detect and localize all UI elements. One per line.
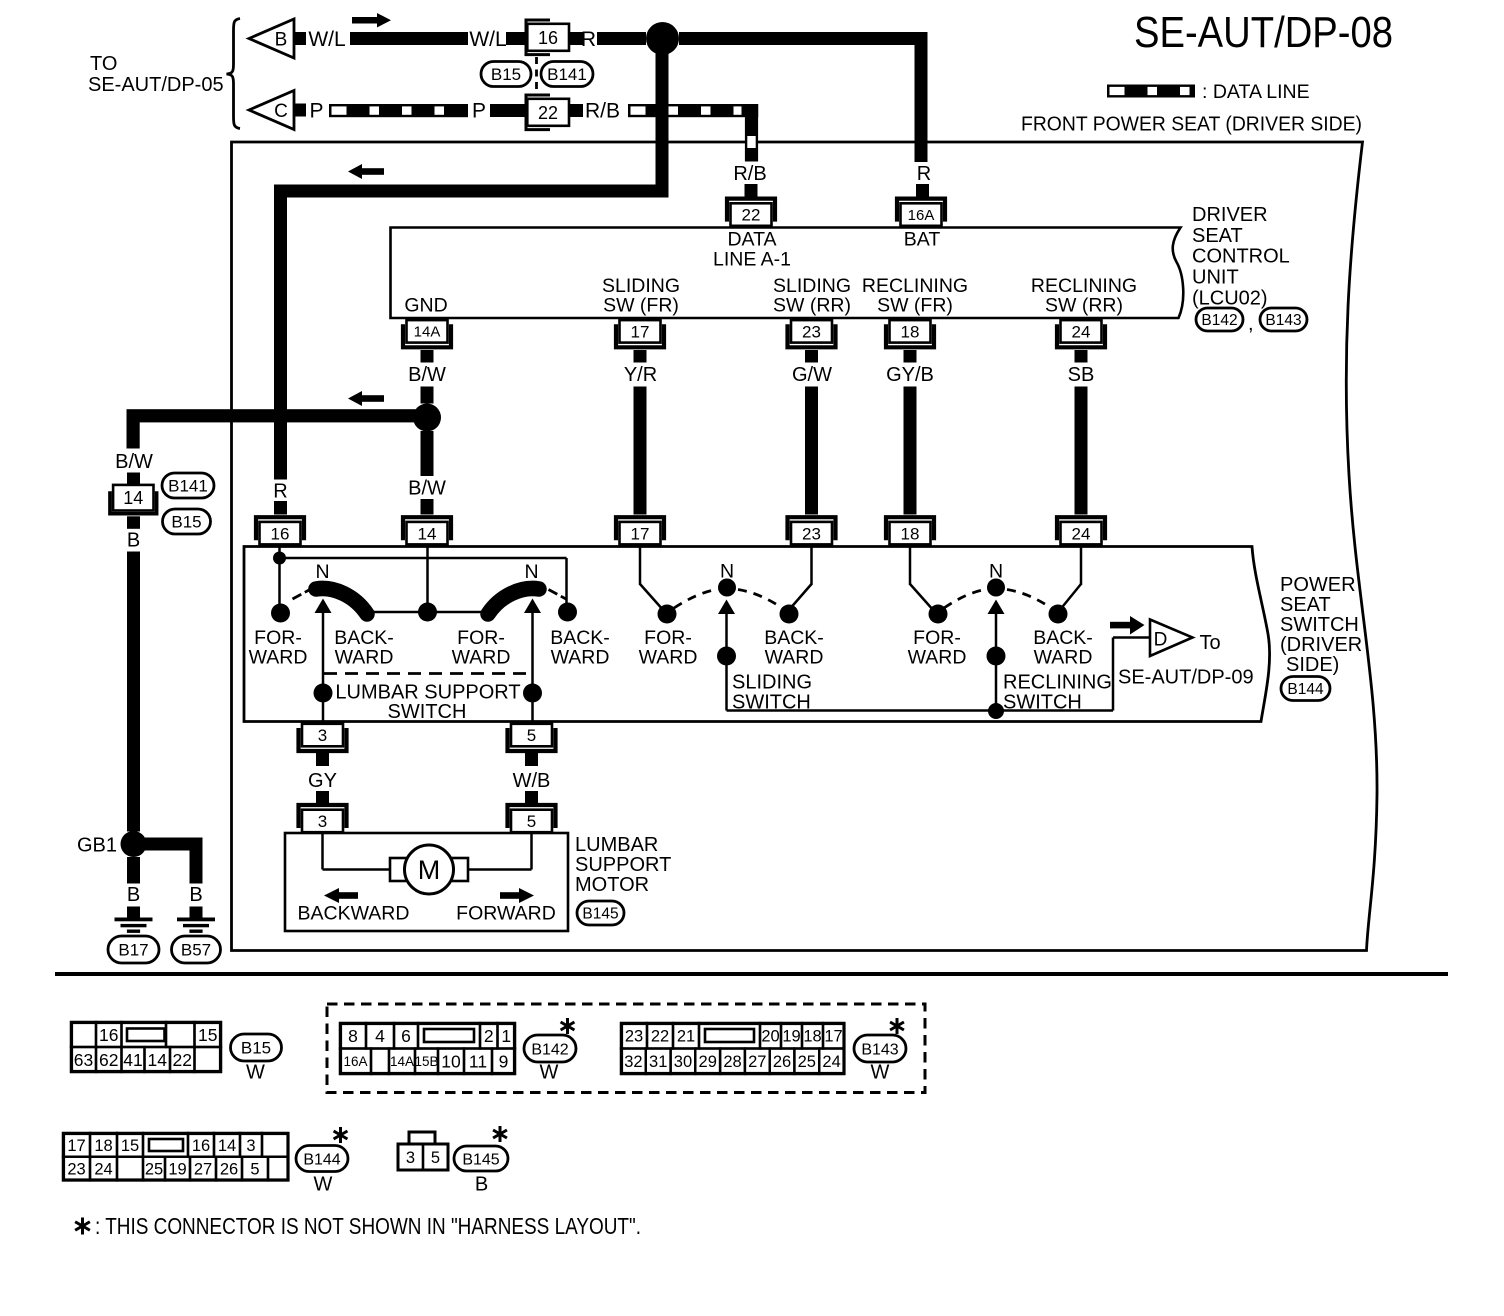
- flow arrow right: [1110, 622, 1130, 629]
- svg-text:30: 30: [674, 1053, 692, 1071]
- svg-text:C: C: [274, 101, 288, 122]
- svg-text:SIDE): SIDE): [1286, 654, 1339, 676]
- svg-text:B: B: [189, 884, 202, 906]
- wire W/L: [350, 32, 468, 45]
- svg-text:23: 23: [625, 1028, 643, 1046]
- wire branch right: [134, 838, 203, 851]
- wire down: [995, 656, 998, 711]
- svg-text:3: 3: [246, 1137, 255, 1155]
- wire B down to GB1: [127, 552, 140, 832]
- svg-text:6: 6: [401, 1026, 411, 1046]
- wire Y/R: [634, 350, 647, 363]
- actuator dot: [987, 647, 1006, 666]
- svg-text:GY: GY: [308, 770, 337, 792]
- svg-text:B15: B15: [241, 1039, 271, 1058]
- svg-text:25: 25: [145, 1160, 163, 1178]
- contact dot forward (left): [271, 604, 290, 623]
- connector 3: [299, 724, 347, 751]
- connector pinout B144: [63, 1133, 288, 1180]
- wire from 23: [810, 546, 813, 585]
- svg-text:M: M: [418, 855, 441, 885]
- junction node: [646, 22, 679, 55]
- svg-text:2: 2: [484, 1026, 494, 1046]
- svg-text:14: 14: [148, 1050, 168, 1070]
- node: [273, 552, 286, 565]
- connector pinout B143: [621, 1023, 844, 1074]
- junction: [988, 703, 1004, 719]
- svg-text:SW (FR): SW (FR): [877, 295, 953, 317]
- connector dashed divider B15/B141: [535, 57, 538, 91]
- actuator arrow: [725, 614, 728, 652]
- connector 14: [403, 517, 451, 544]
- svg-text:B57: B57: [181, 941, 211, 960]
- svg-text:62: 62: [99, 1050, 118, 1070]
- contact dot backward: [1049, 605, 1068, 624]
- svg-text:BACKWARD: BACKWARD: [298, 903, 410, 925]
- connector ref B143: [1260, 308, 1307, 331]
- actuator dot: [717, 647, 736, 666]
- svg-text:R: R: [273, 481, 287, 503]
- enclosure FRONT POWER SEAT box: [232, 142, 1378, 951]
- connector ref B141: [541, 62, 593, 87]
- svg-text:DATA: DATA: [727, 229, 776, 251]
- connector 22 (B15/B141 inline): [526, 95, 569, 130]
- connector ref B143: [854, 1035, 906, 1062]
- center contact line: [368, 611, 486, 614]
- svg-text:14A: 14A: [414, 324, 441, 341]
- wire: [569, 32, 583, 45]
- motor terminal right: [451, 858, 468, 881]
- connector 16A: [897, 199, 945, 226]
- wiper dashed right: [1007, 590, 1051, 609]
- svg-text:15B: 15B: [414, 1054, 438, 1069]
- svg-text:63: 63: [74, 1050, 93, 1070]
- data line P: [329, 104, 468, 117]
- motor M: [405, 845, 454, 894]
- off-page connector D: [1150, 620, 1193, 657]
- svg-text:16: 16: [271, 524, 290, 543]
- svg-text:14: 14: [123, 488, 143, 508]
- svg-text:Y/R: Y/R: [624, 364, 657, 386]
- svg-text:SE-AUT/DP-05: SE-AUT/DP-05: [88, 74, 224, 96]
- connector 17: [616, 320, 664, 347]
- svg-text:GND: GND: [404, 295, 447, 317]
- footnote: [81, 1218, 84, 1235]
- svg-text:To: To: [1199, 632, 1220, 654]
- svg-text:17: 17: [631, 322, 650, 341]
- common wire to D: [727, 709, 1114, 712]
- svg-text:(LCU02): (LCU02): [1192, 287, 1268, 309]
- svg-text:W: W: [246, 1062, 265, 1084]
- wire R to 16A: [679, 32, 928, 45]
- common node N: [987, 579, 1005, 597]
- svg-text:WARD: WARD: [551, 647, 610, 669]
- mechanical link dashed: [324, 672, 531, 675]
- svg-text:18: 18: [803, 1028, 821, 1046]
- svg-text:SE-AUT/DP-09: SE-AUT/DP-09: [1118, 667, 1254, 689]
- svg-text:15: 15: [198, 1025, 217, 1045]
- svg-text:TO: TO: [90, 53, 117, 75]
- svg-text:B141: B141: [168, 477, 208, 496]
- svg-text:B142: B142: [1201, 312, 1237, 329]
- wiper arc right: [488, 588, 539, 614]
- svg-text:: THIS CONNECTOR IS NOT SHOWN: : THIS CONNECTOR IS NOT SHOWN IN "HARNES…: [95, 1213, 641, 1239]
- off-page connector C: [249, 91, 294, 130]
- connector ref B57: [172, 936, 221, 963]
- svg-text:G/W: G/W: [792, 364, 832, 386]
- contact dot backward: [780, 605, 799, 624]
- connector ref B145: [454, 1146, 508, 1171]
- svg-text:23: 23: [802, 322, 821, 341]
- svg-text:DRIVER: DRIVER: [1192, 204, 1268, 226]
- connector pinout B15: [71, 1022, 221, 1072]
- svg-text:W/B: W/B: [513, 770, 551, 792]
- svg-text:B/W: B/W: [408, 364, 446, 386]
- svg-text:SEAT: SEAT: [1280, 594, 1331, 616]
- wiper arc left: [316, 588, 367, 614]
- wire B/W down left: [127, 422, 140, 449]
- svg-text:B: B: [127, 884, 140, 906]
- connector 23: [788, 517, 836, 544]
- svg-text:14A: 14A: [390, 1054, 414, 1069]
- wire B/W to connector 14: [421, 431, 434, 476]
- svg-text:17: 17: [67, 1137, 85, 1155]
- wire: [490, 104, 525, 117]
- wire from 18: [909, 546, 912, 585]
- svg-text:20: 20: [761, 1028, 779, 1046]
- svg-text:FRONT POWER SEAT (DRIVER SIDE): FRONT POWER SEAT (DRIVER SIDE): [1021, 114, 1362, 136]
- wiper dash right: [549, 590, 567, 600]
- svg-text:W: W: [871, 1062, 890, 1084]
- svg-text:22: 22: [538, 103, 558, 123]
- wire to motor: [321, 833, 324, 870]
- ground B17: [115, 918, 153, 922]
- svg-text:UNIT: UNIT: [1192, 266, 1239, 288]
- svg-text:29: 29: [699, 1053, 717, 1071]
- connector 5: [508, 724, 556, 751]
- dashed group box: [327, 1004, 925, 1093]
- svg-text:16: 16: [99, 1025, 118, 1045]
- wire G/W: [805, 350, 818, 363]
- svg-text:22: 22: [742, 206, 761, 225]
- svg-text:LINE A-1: LINE A-1: [713, 249, 791, 271]
- svg-text:16: 16: [192, 1137, 210, 1155]
- arrow forward: [500, 892, 519, 899]
- actuator arrow: [995, 614, 998, 652]
- svg-text:31: 31: [649, 1053, 667, 1071]
- svg-text:16A: 16A: [908, 207, 935, 224]
- separator line: [55, 972, 1448, 976]
- svg-text:23: 23: [802, 524, 821, 543]
- svg-text:5: 5: [527, 812, 536, 831]
- contact dot forward: [658, 605, 677, 624]
- svg-text:W: W: [540, 1062, 559, 1084]
- svg-text:B143: B143: [861, 1041, 898, 1058]
- svg-text:SWITCH: SWITCH: [388, 701, 467, 723]
- svg-text:WARD: WARD: [908, 647, 967, 669]
- wiper dashed left: [674, 590, 716, 609]
- connector ref B144: [1281, 677, 1330, 701]
- actuator arrow right: [531, 613, 534, 690]
- svg-text:W/L: W/L: [308, 28, 345, 51]
- svg-text:3: 3: [318, 812, 327, 831]
- wire R: [597, 32, 646, 45]
- svg-text:W/L: W/L: [469, 28, 506, 51]
- contact dot forward: [929, 605, 948, 624]
- svg-text:B/W: B/W: [408, 478, 446, 500]
- connector 22: [727, 199, 775, 226]
- svg-text:22: 22: [173, 1050, 192, 1070]
- svg-text:B15: B15: [491, 65, 521, 84]
- brace: [227, 19, 241, 129]
- connector ref B15: [163, 509, 211, 534]
- svg-text:B143: B143: [1265, 312, 1301, 329]
- svg-text:18: 18: [901, 322, 920, 341]
- wire down: [725, 656, 728, 711]
- svg-text:FORWARD: FORWARD: [456, 903, 556, 925]
- wire B/W (GND): [421, 350, 434, 363]
- svg-text:16: 16: [538, 28, 558, 48]
- wire from 16: [278, 546, 281, 554]
- svg-text:18: 18: [94, 1137, 112, 1155]
- svg-text:LUMBAR: LUMBAR: [575, 834, 658, 856]
- wire from 24: [1080, 546, 1083, 585]
- center node: [418, 603, 437, 622]
- connector 16: [256, 517, 304, 544]
- svg-text:8: 8: [348, 1026, 358, 1046]
- connector ref B15: [481, 62, 531, 87]
- motor terminal left: [390, 858, 407, 881]
- svg-text:22: 22: [651, 1028, 669, 1046]
- wire stub: [294, 32, 306, 45]
- actuator arrow left: [322, 613, 325, 690]
- svg-text:5: 5: [250, 1160, 259, 1178]
- wiper dashed left: [944, 590, 985, 609]
- svg-text:B: B: [275, 30, 288, 51]
- wire across to backward contact: [280, 557, 567, 560]
- svg-text:SLIDING: SLIDING: [732, 672, 812, 694]
- svg-text:SW (RR): SW (RR): [1045, 295, 1123, 317]
- svg-text:41: 41: [123, 1050, 142, 1070]
- svg-text:32: 32: [624, 1053, 642, 1071]
- svg-text:D: D: [1154, 630, 1168, 651]
- svg-text:GY/B: GY/B: [886, 364, 934, 386]
- arrow backward: [324, 888, 339, 903]
- svg-text:POWER: POWER: [1280, 574, 1356, 596]
- wire: [569, 104, 583, 117]
- svg-text:P: P: [309, 100, 323, 123]
- flow arrow right: [352, 17, 377, 24]
- data line R/B vertical: [745, 104, 758, 162]
- svg-text:B142: B142: [531, 1041, 568, 1058]
- svg-text:B141: B141: [547, 65, 587, 84]
- wire R down to connector 16: [274, 198, 287, 480]
- wire stub: [294, 104, 306, 117]
- svg-text:19: 19: [782, 1028, 800, 1046]
- connector 24: [1057, 320, 1105, 347]
- svg-text:RECLINING: RECLINING: [1003, 672, 1112, 694]
- svg-text:GB1: GB1: [77, 835, 117, 857]
- svg-text:B/W: B/W: [115, 451, 153, 473]
- connector 24: [1057, 517, 1105, 544]
- svg-text:B17: B17: [118, 941, 148, 960]
- wire B/W branch left: [127, 409, 428, 422]
- svg-text:24: 24: [1072, 322, 1091, 341]
- svg-text:5: 5: [431, 1149, 440, 1167]
- svg-text:BAT: BAT: [904, 229, 941, 251]
- wire: [745, 184, 758, 197]
- svg-text:15: 15: [121, 1137, 139, 1155]
- wire B left: [127, 857, 140, 884]
- svg-text:B145: B145: [582, 906, 618, 923]
- junction node B/W: [413, 404, 441, 432]
- svg-text:3: 3: [318, 726, 327, 745]
- svg-text:24: 24: [822, 1053, 840, 1071]
- svg-text:14: 14: [218, 1137, 236, 1155]
- svg-text:5: 5: [527, 726, 536, 745]
- wire label B: [127, 516, 140, 529]
- svg-text:SW (FR): SW (FR): [603, 295, 679, 317]
- connector 14A: [403, 320, 451, 347]
- wire GY/B: [904, 350, 917, 363]
- svg-text:19: 19: [168, 1160, 186, 1178]
- svg-text:B: B: [127, 530, 140, 552]
- svg-text:23: 23: [67, 1160, 85, 1178]
- connector ref B144: [296, 1146, 348, 1172]
- svg-text:R: R: [917, 163, 931, 185]
- POWER SEAT SWITCH box: [244, 547, 1270, 722]
- svg-text:B144: B144: [1287, 681, 1324, 698]
- flow arrow left: [348, 391, 362, 406]
- LUMBAR SUPPORT MOTOR box: [285, 833, 568, 931]
- svg-text:WARD: WARD: [452, 647, 511, 669]
- connector ref B142: [1196, 308, 1243, 331]
- svg-text:(DRIVER: (DRIVER: [1280, 634, 1362, 656]
- svg-text:25: 25: [798, 1053, 816, 1071]
- svg-text:21: 21: [677, 1028, 695, 1046]
- connector 18: [886, 517, 934, 544]
- svg-text:MOTOR: MOTOR: [575, 874, 649, 896]
- data line legend: [1107, 85, 1195, 98]
- connector 14 (B141/B15 inline): [110, 485, 157, 514]
- svg-text:B144: B144: [303, 1151, 340, 1168]
- common node N: [718, 579, 736, 597]
- svg-text:SEAT: SEAT: [1192, 225, 1243, 247]
- connector pinout B145: [398, 1132, 448, 1170]
- connector 16 (B15/B141 inline): [526, 20, 569, 55]
- connector 18: [886, 320, 934, 347]
- wire W/B: [525, 752, 538, 766]
- svg-text:3: 3: [406, 1149, 415, 1167]
- svg-text:P: P: [472, 100, 486, 123]
- wire to forward contact: [278, 558, 281, 604]
- svg-text:W: W: [314, 1174, 333, 1196]
- wire R down-left run: [656, 50, 669, 198]
- svg-text:17: 17: [631, 524, 650, 543]
- svg-text:: DATA LINE: : DATA LINE: [1202, 81, 1310, 103]
- svg-text:18: 18: [901, 524, 920, 543]
- svg-text:WARD: WARD: [765, 647, 824, 669]
- connector 3 (motor): [299, 805, 347, 832]
- svg-text:26: 26: [773, 1053, 791, 1071]
- wire: [916, 184, 929, 197]
- connector ref B142: [524, 1035, 576, 1062]
- svg-text:SWITCH: SWITCH: [1280, 614, 1359, 636]
- wiper dash left: [293, 590, 311, 600]
- svg-text:WARD: WARD: [1034, 647, 1093, 669]
- svg-text:16A: 16A: [343, 1054, 367, 1069]
- connector pinout B142: [340, 1023, 515, 1074]
- svg-text:24: 24: [94, 1160, 112, 1178]
- svg-text:SW (RR): SW (RR): [773, 295, 851, 317]
- svg-text:B: B: [475, 1174, 488, 1196]
- svg-text:N: N: [315, 561, 329, 583]
- actuator dot: [523, 684, 542, 703]
- svg-text:R: R: [581, 28, 596, 51]
- svg-text:26: 26: [220, 1160, 238, 1178]
- connector 17: [616, 517, 664, 544]
- connector ref B145: [577, 901, 624, 925]
- actuator dot: [314, 684, 333, 703]
- svg-text:N: N: [524, 561, 538, 583]
- svg-text:17: 17: [824, 1028, 842, 1046]
- connector ref B15: [231, 1034, 282, 1061]
- svg-text:SB: SB: [1068, 364, 1095, 386]
- ground B57: [177, 918, 215, 922]
- svg-text:24: 24: [1072, 524, 1091, 543]
- svg-text:R/B: R/B: [733, 163, 766, 185]
- svg-text:,: ,: [1248, 313, 1254, 335]
- off-page connector B: [249, 19, 294, 58]
- wire to connector 5: [531, 693, 534, 722]
- wire from 17: [639, 546, 642, 585]
- svg-text:9: 9: [499, 1052, 509, 1072]
- connector 5 (motor): [508, 805, 556, 832]
- svg-text:28: 28: [723, 1053, 741, 1071]
- flow arrow left: [348, 164, 362, 179]
- svg-text:4: 4: [375, 1026, 385, 1046]
- svg-text:CONTROL: CONTROL: [1192, 246, 1290, 268]
- wire to connector 3: [322, 693, 325, 722]
- svg-text:14: 14: [418, 524, 437, 543]
- wire from 14: [426, 546, 429, 605]
- svg-text:11: 11: [469, 1052, 487, 1072]
- connector ref B141: [162, 473, 214, 498]
- svg-text:WARD: WARD: [639, 647, 698, 669]
- svg-text:R/B: R/B: [585, 100, 620, 123]
- svg-text:WARD: WARD: [249, 647, 308, 669]
- svg-text:WARD: WARD: [335, 647, 394, 669]
- connector 23: [788, 320, 836, 347]
- wire: [506, 32, 525, 45]
- svg-text:B145: B145: [462, 1151, 499, 1168]
- svg-text:1: 1: [501, 1026, 511, 1046]
- wiper dashed right: [738, 590, 782, 609]
- junction GB1: [121, 831, 147, 857]
- wire GY: [316, 752, 329, 766]
- svg-text:SUPPORT: SUPPORT: [575, 854, 671, 876]
- svg-text:SE-AUT/DP-08: SE-AUT/DP-08: [1134, 8, 1393, 57]
- svg-text:10: 10: [441, 1052, 461, 1072]
- svg-text:B15: B15: [171, 513, 201, 532]
- wire SB: [1075, 350, 1088, 363]
- connector ref B17: [108, 936, 159, 963]
- data line R/B: [628, 104, 744, 117]
- svg-text:27: 27: [194, 1160, 212, 1178]
- contact dot backward (right): [558, 603, 577, 622]
- DRIVER SEAT CONTROL UNIT box: [391, 228, 1184, 319]
- svg-text:27: 27: [748, 1053, 766, 1071]
